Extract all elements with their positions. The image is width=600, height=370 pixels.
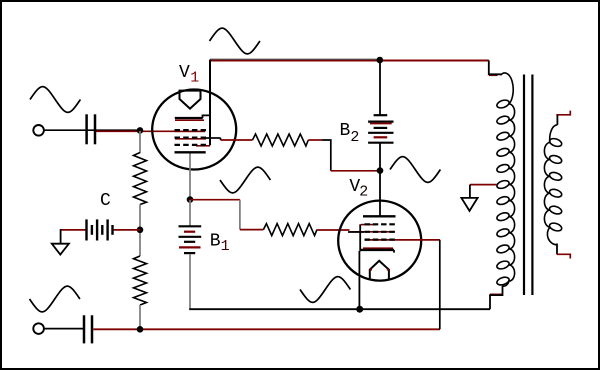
transformer: core line 2 (531, 75, 533, 296)
battery B1 plate long red (179, 246, 201, 248)
svg-text:C: C (100, 191, 111, 211)
transformer: primary loopback ellipses (496, 99, 510, 287)
transformer: primary center tap red (470, 184, 497, 186)
wire: red cathode to corner (190, 199, 240, 201)
tube V1 plate hook (203, 115, 211, 118)
node: junction dot V2 cathode bottom (356, 306, 363, 313)
wire: V1 plate lead vertical (209, 60, 211, 146)
input terminal top (33, 125, 44, 136)
transformer: secondary top step (556, 115, 558, 125)
tube V2 grid row3 red underline (output) (365, 239, 441, 241)
tube V2 plate line (363, 215, 396, 217)
battery B2 plate long 2 (368, 132, 393, 134)
tube V2 cathode line (361, 249, 394, 251)
battery B2 plate long 1 (368, 120, 393, 122)
battery B1 bottom gray lead (189, 254, 191, 309)
tube V2 cathode hook (393, 250, 395, 253)
wire: V2 output drop (439, 240, 441, 329)
tube V2 cathode drop to bottom rail (358, 251, 360, 309)
battery B2 red underline (370, 123, 392, 125)
tube V1 screen lead black (206, 137, 221, 139)
wire: tap ground drop (469, 185, 471, 198)
tube V2 grid row2 red underline (350, 231, 396, 233)
wire: R1 to B2 corner black (322, 140, 331, 171)
node: junction dot bottom input (137, 326, 144, 333)
wire: black bottom rail (189, 308, 490, 310)
wire: top input red (cap to V1 grid) (96, 130, 205, 132)
tube V2 grid row2 dashes (365, 231, 396, 233)
battery B2 top lead (379, 61, 381, 116)
battery C plate long 1 (85, 219, 87, 240)
battery C plate short 1 (91, 225, 93, 235)
sine wave below V2 (300, 277, 350, 303)
battery B1 plate short 3 (184, 252, 195, 254)
wire: R2 right red to V2 grid (317, 229, 350, 231)
battery C plate long 2 (96, 219, 98, 240)
wire: screen jog (220, 138, 222, 140)
ground symbol right (461, 198, 477, 211)
transformer: core line 1 (523, 75, 525, 296)
transformer: secondary top red stub (556, 111, 570, 115)
transformer: primary coil scallops (509, 104, 515, 281)
sine wave top-middle (V1 plate) (210, 28, 260, 54)
tube V1 cathode line (175, 151, 206, 153)
transformer: secondary tail (547, 227, 557, 245)
tube V1 plate line (175, 117, 203, 119)
transformer: secondary bottom red stub (557, 254, 571, 258)
node: junction dot top input (137, 127, 144, 134)
wire: R1 right red (308, 139, 322, 141)
tube V2 cathode red underline (363, 247, 393, 249)
battery C plate short 2 (101, 225, 103, 235)
tube V1 grid row2 dashes (175, 137, 207, 139)
tube V1 grid row1 dashes (175, 129, 207, 131)
battery C: red wire right (113, 229, 140, 231)
transformer: primary coil lead-in arc (501, 73, 514, 104)
battery B1 top gray lead (189, 200, 191, 226)
tube V1 grid row3 dashes (175, 144, 207, 146)
tube V1 envelope (152, 90, 236, 170)
svg-text:V: V (179, 63, 190, 83)
wire: gray lead Rb to bottom junction (139, 305, 141, 327)
tube V2 grid left vertical (359, 224, 361, 251)
capacitor C-in top: plate 2 (94, 114, 97, 144)
node: junction dot C battery tap (137, 227, 144, 234)
sine wave below V1 / B1 (220, 167, 270, 193)
resistor Rb (lower left vertical) (134, 256, 147, 305)
battery C plate long 3 (106, 219, 108, 240)
svg-text:1: 1 (190, 69, 199, 86)
tube V2 grid row1 red underline (361, 224, 376, 226)
wire: red corner to R2 (240, 229, 264, 231)
wire: gray corner drop (239, 200, 241, 230)
resistor R1 (V1 screen) (253, 134, 309, 146)
input terminal bottom (33, 323, 44, 334)
tube V2 grid jog black (348, 231, 364, 233)
node: junction dot top rail at B2 (377, 57, 384, 64)
wire: ground drop left (60, 229, 62, 244)
transformer: secondary coil scallops (544, 143, 550, 227)
svg-text:B: B (210, 232, 221, 252)
capacitor C-in bottom: plate 2 (91, 315, 94, 343)
battery B1 plate short red (184, 231, 195, 233)
battery B1 plate long 1 (179, 225, 202, 227)
svg-text:2: 2 (350, 129, 359, 146)
battery B2 plate short red (374, 136, 388, 138)
ground symbol left (52, 244, 69, 255)
svg-text:B: B (339, 121, 350, 141)
transformer: bottom step red overlay (490, 293, 503, 295)
tube V1 grid row2 red underline (175, 138, 206, 140)
sine wave top-left input (30, 87, 80, 113)
node: junction dot B2 bottom (377, 167, 384, 174)
svg-text:2: 2 (359, 183, 368, 200)
tube V1 plate red underline (175, 119, 204, 121)
battery B2 plate long 3 (368, 142, 393, 144)
sine wave bottom-left input (30, 286, 80, 312)
tube V2 plate lead (379, 171, 381, 216)
transformer: top step (489, 60, 501, 74)
wire: gray lead junction to resistor Ra (139, 131, 141, 153)
tube V1 cathode gray lead (189, 154, 191, 198)
wire: bottom input black (44, 328, 84, 330)
battery B1 plate short 2 (184, 241, 195, 243)
transformer: bottom step (490, 286, 503, 309)
wire: bottom red rail (93, 328, 440, 330)
wire: top plate rail red (V1 plate to transformer) (210, 60, 489, 62)
tube V1 grid row3 red underline (196, 145, 210, 147)
tube V1 filament chevron (180, 91, 201, 109)
battery B2 plate short 2 (374, 127, 388, 129)
wire: corner to B2 bottom red (331, 170, 378, 172)
tube V2 envelope (338, 201, 421, 281)
battery C: red wire left (61, 229, 86, 231)
resistor R2 (V2 grid) (263, 224, 317, 236)
wire: top plate rail black overlay (210, 58, 380, 60)
sine wave right of B2 (390, 157, 440, 183)
capacitor C-in bottom: plate 1 (83, 315, 86, 343)
resistor Ra (upper left vertical) (134, 153, 147, 205)
tube V2 filament chevron (370, 261, 389, 280)
tube V2 chevron red corner marks (370, 269, 372, 271)
transformer: primary tail (503, 281, 510, 286)
transformer: secondary loopback ellipses (549, 137, 563, 232)
tube V2 grid row3 dashes (365, 239, 396, 241)
battery C plate short 3 (111, 225, 113, 235)
battery B2 bottom lead (379, 144, 381, 171)
wire: red bit under top step (489, 74, 498, 76)
wire: V1 cathode junction dot (187, 196, 194, 203)
wire: gray lead between Ra and Rb (139, 205, 141, 257)
svg-text:1: 1 (221, 238, 230, 255)
transformer: secondary bottom step (556, 244, 558, 255)
wire: screen red to resistor R1 (221, 139, 253, 141)
wire: top input black (44, 129, 141, 131)
transformer: secondary lead-in arc (550, 125, 558, 143)
battery B1 plate long 2 (179, 236, 202, 238)
tube V2 grid row1 dashes (365, 223, 396, 225)
tube V1 grid row1 red underline (175, 130, 206, 132)
battery B2 plate short 1 (374, 114, 388, 116)
capacitor C-in top: plate 1 (85, 114, 88, 144)
